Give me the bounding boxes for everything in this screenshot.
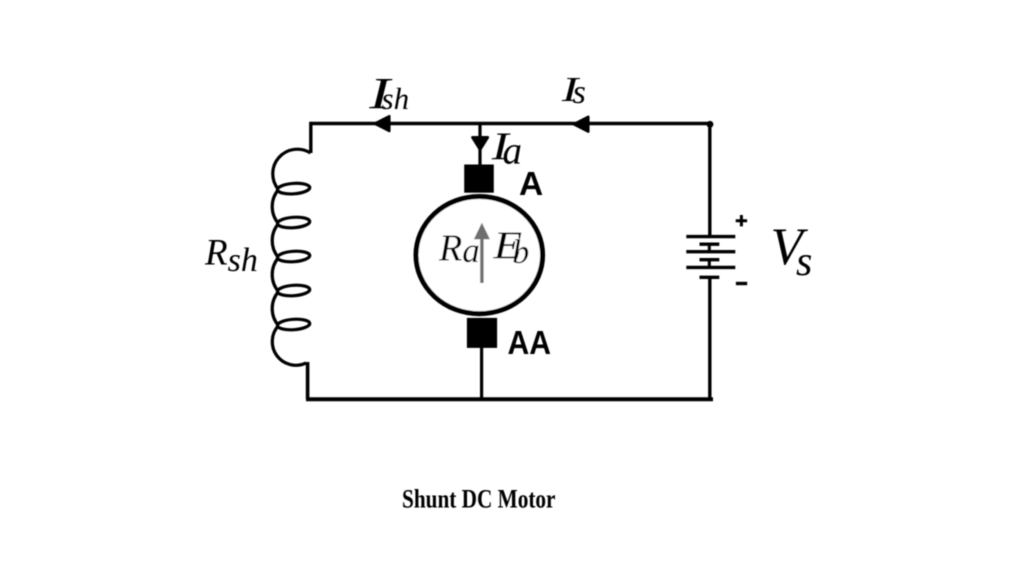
label Eb [492,225,522,268]
inductor Rsh winding: loop ellipse 5 [277,318,310,331]
inductor Rsh winding: loop ellipse 1 [277,182,310,195]
minus sign [736,282,747,285]
inductor Rsh winding: entry arc [273,149,311,189]
wire: right vertical from battery to bottom bus [708,277,711,399]
label Is [561,71,581,109]
svg-text:b: b [512,234,529,271]
inductor Rsh winding: arc 2 [272,190,278,224]
battery Vs: long plate 1 [686,235,735,238]
inductor Rsh winding: exit arc [272,326,306,366]
plus sign [736,215,747,226]
inductor Rsh winding: loop ellipse 3 [277,250,310,263]
inductor Rsh winding: loop ellipse 2 [277,216,310,229]
battery short plate 3 [700,276,720,279]
wire: motor branch vertical from top bus [478,124,481,167]
svg-text:sh: sh [382,81,410,116]
battery center tick 2 [708,260,711,268]
inductor Rsh winding: arc 4 [272,258,278,292]
label Ia [491,125,511,168]
label Ish [368,69,393,118]
wire: left vertical stub from top bus to coil [309,122,312,153]
svg-text:AA: AA [508,325,552,362]
battery center tick 1 [708,244,711,252]
svg-text:s: s [796,239,812,285]
inductor Rsh winding: arc 3 [272,224,278,258]
current arrow Is (left-pointing) [574,117,589,132]
battery short plate 1 [700,242,720,245]
motor body circle [416,197,543,314]
wire: motor bottom vertical to bottom bus [480,346,483,399]
svg-text:A: A [519,166,543,203]
battery long plate 2 [686,250,735,253]
wire: bottom horizontal bus [306,397,713,401]
back-EMF arrow (gray, upward) inside motor [480,239,483,284]
wire: top horizontal bus [311,122,711,125]
battery long plate 3 [686,266,735,269]
wire: left vertical stub from coil to bottom bus [306,362,310,399]
svg-text:s: s [573,74,586,111]
motor terminal A (top black square) [464,165,494,193]
junction dot top-right corner [707,121,714,128]
svg-text:Shunt DC Motor: Shunt DC Motor [402,485,556,514]
motor terminal AA (bottom black square) [467,318,497,348]
wire: right vertical from top bus to battery [708,124,711,238]
inductor Rsh winding: loop ellipse 4 [277,284,310,297]
current arrow Ish (left-pointing) [375,116,390,131]
inductor Rsh winding: arc 5 [272,292,278,326]
svg-text:Ra: Ra [438,228,480,270]
current arrow Ia (down-pointing) [473,137,488,149]
battery short plate 2 [700,258,720,261]
